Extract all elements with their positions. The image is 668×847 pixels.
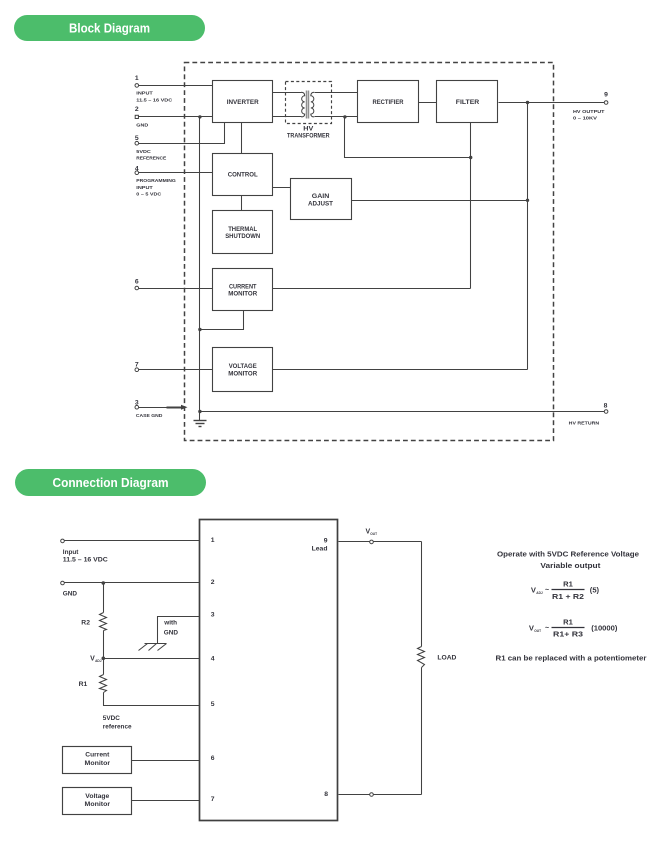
svg-text:GND: GND [63,591,78,598]
svg-text:Variable output: Variable output [540,561,601,570]
svg-text:Monitor: Monitor [85,760,111,767]
svg-text:~: ~ [545,587,549,594]
svg-text:5: 5 [135,135,139,142]
svg-text:Connection Diagram: Connection Diagram [53,475,169,490]
svg-text:11.5 – 16 VDC: 11.5 – 16 VDC [136,97,173,103]
svg-text:OUT: OUT [534,629,541,633]
svg-text:R1: R1 [563,580,573,589]
svg-text:INPUT: INPUT [136,91,153,97]
svg-text:GND: GND [164,630,179,637]
svg-text:INVERTER: INVERTER [227,99,259,106]
svg-text:8: 8 [324,791,328,798]
svg-text:(10000): (10000) [591,624,618,633]
svg-text:1: 1 [135,75,139,82]
svg-text:Input: Input [63,549,79,556]
svg-text:REFERENCE: REFERENCE [136,156,167,162]
svg-text:6: 6 [135,278,139,285]
svg-text:INPUT: INPUT [136,185,153,191]
svg-text:HV OUTPUT: HV OUTPUT [573,109,605,115]
svg-text:R1: R1 [563,618,573,627]
svg-text:4: 4 [135,165,139,172]
svg-text:R1 can be replaced with a pote: R1 can be replaced with a potentiometer [496,653,647,662]
svg-text:RECTIFIER: RECTIFIER [373,99,404,106]
svg-text:(5): (5) [590,586,600,595]
svg-text:with: with [163,620,177,627]
svg-text:SHUTDOWN: SHUTDOWN [225,233,260,240]
svg-text:7: 7 [211,796,215,803]
svg-text:Voltage: Voltage [85,793,109,800]
svg-text:Monitor: Monitor [85,801,111,808]
svg-text:ADJUST: ADJUST [308,201,333,208]
svg-text:7: 7 [135,361,139,368]
svg-text:2: 2 [135,106,139,113]
svg-text:4: 4 [211,655,215,662]
svg-text:R1+ R3: R1+ R3 [553,630,583,639]
svg-text:GAIN: GAIN [312,193,330,200]
svg-text:0 – 5 VDC: 0 – 5 VDC [136,192,162,198]
svg-text:HV RETURN: HV RETURN [569,420,600,426]
svg-text:reference: reference [103,723,132,730]
svg-text:CONTROL: CONTROL [228,172,258,179]
svg-text:ADJ: ADJ [95,659,102,663]
svg-text:3: 3 [135,399,139,406]
svg-text:R1 + R2: R1 + R2 [552,592,584,601]
svg-text:5VDC: 5VDC [136,149,151,155]
svg-text:8: 8 [604,402,608,409]
svg-text:CASE GND: CASE GND [136,413,163,419]
svg-text:Lead: Lead [312,546,328,553]
svg-text:R2: R2 [81,620,90,627]
svg-text:CURRENT: CURRENT [229,283,257,290]
svg-text:OUT: OUT [370,532,377,536]
svg-text:MONITOR: MONITOR [228,370,257,377]
svg-text:9: 9 [324,537,328,544]
svg-text:MONITOR: MONITOR [228,291,257,298]
svg-text:6: 6 [211,755,215,762]
svg-text:LOAD: LOAD [437,654,456,661]
svg-text:~: ~ [545,625,549,632]
svg-text:THERMAL: THERMAL [228,226,257,233]
svg-text:GND: GND [136,123,149,129]
svg-text:VOLTAGE: VOLTAGE [229,363,258,370]
svg-text:HV: HV [303,126,314,133]
svg-text:3: 3 [211,612,215,619]
svg-text:1: 1 [211,537,215,544]
svg-text:Block Diagram: Block Diagram [69,21,150,36]
svg-text:R1: R1 [79,681,88,688]
svg-text:5: 5 [211,701,215,708]
svg-text:0 – 10KV: 0 – 10KV [573,116,598,122]
svg-text:9: 9 [604,92,608,99]
svg-text:Current: Current [85,752,110,759]
svg-text:5VDC: 5VDC [103,715,120,722]
svg-text:FILTER: FILTER [456,99,480,106]
svg-text:2: 2 [211,579,215,586]
svg-text:PROGRAMMING: PROGRAMMING [136,178,176,184]
svg-text:ADJ: ADJ [536,591,543,595]
svg-text:11.5 – 16 VDC: 11.5 – 16 VDC [63,557,108,564]
svg-text:Operate with 5VDC Reference Vo: Operate with 5VDC Reference Voltage [497,550,639,559]
svg-text:TRANSFORMER: TRANSFORMER [287,133,330,140]
